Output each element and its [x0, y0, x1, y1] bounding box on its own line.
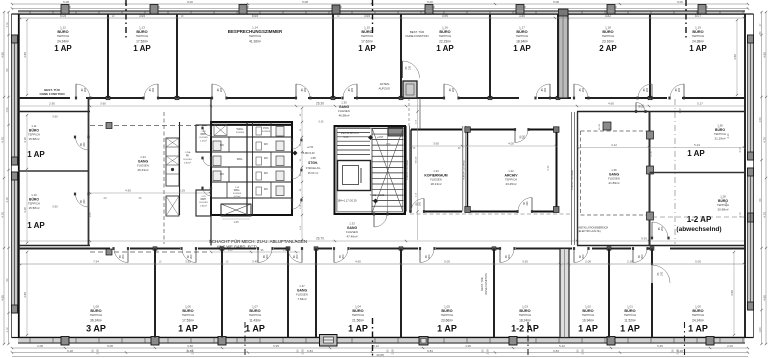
svg-text:200: 200 — [342, 254, 345, 259]
GANG dimension line with values — [89, 189, 211, 201]
upper corridor dimension line — [20, 102, 744, 218]
svg-text:2.28: 2.28 — [301, 349, 305, 355]
svg-text:4.80: 4.80 — [730, 290, 734, 296]
svg-text:21.56m²: 21.56m² — [352, 319, 364, 323]
svg-text:4.70: 4.70 — [0, 137, 4, 143]
svg-text:3.60: 3.60 — [100, 102, 106, 106]
svg-text:(ELEKTRO+KÄLTE): (ELEKTRO+KÄLTE) — [578, 230, 601, 233]
svg-text:WC: WC — [220, 173, 224, 176]
svg-text:5.95: 5.95 — [273, 344, 279, 348]
svg-text:200: 200 — [296, 254, 299, 259]
room label 1.33 GANG below stairs — [346, 222, 358, 239]
svg-text:1.11: 1.11 — [31, 124, 37, 128]
room label 1.38 BÜRO 1 AP right upper — [687, 124, 730, 159]
svg-text:4.80: 4.80 — [23, 292, 27, 298]
door to upper office — [573, 84, 590, 99]
svg-text:9.00: 9.00 — [187, 0, 193, 4]
door to lower office — [632, 247, 649, 262]
svg-text:OHNE FUNKTION: OHNE FUNKTION — [405, 34, 428, 38]
svg-text:1.50: 1.50 — [386, 144, 391, 146]
svg-text:4.80: 4.80 — [762, 52, 766, 58]
svg-text:1 AP: 1 AP — [687, 149, 705, 158]
svg-text:WC: WC — [264, 157, 268, 160]
door to lower office — [286, 247, 303, 262]
svg-text:18.13m²: 18.13m² — [430, 182, 441, 186]
door to upper office — [534, 84, 551, 99]
svg-text:24.24m²: 24.24m² — [692, 319, 704, 323]
svg-text:46.98m²: 46.98m² — [338, 114, 349, 118]
svg-text:5.08: 5.08 — [63, 0, 69, 4]
svg-text:TEPPICH: TEPPICH — [441, 313, 454, 317]
svg-text:17.52m²: 17.52m² — [136, 40, 148, 44]
svg-text:1.13: 1.13 — [139, 26, 145, 30]
svg-text:5.08: 5.08 — [553, 0, 559, 4]
svg-text:6.83: 6.83 — [307, 349, 313, 353]
svg-text:200: 200 — [452, 87, 455, 92]
svg-text:200: 200 — [508, 254, 511, 259]
interior vertical dimension bottom-right room — [730, 251, 735, 336]
svg-text:1.72: 1.72 — [5, 327, 9, 333]
room label 1.00 BÜRO 1 AP — [688, 305, 708, 334]
door to upper office — [295, 84, 312, 99]
wall lower corridor north of lower offices — [18, 247, 745, 251]
axis line G dash-dot upper right — [685, 0, 687, 38]
svg-text:PK: PK — [186, 155, 190, 158]
svg-text:1 AP: 1 AP — [688, 324, 708, 334]
interior vertical dimension middle-left offices — [23, 114, 28, 244]
interior vertical dimension KOPIERRAUM — [409, 98, 420, 240]
svg-text:FLIESEN: FLIESEN — [262, 131, 271, 133]
room label 1.12 BÜRO 1 AP — [54, 26, 72, 54]
svg-text:OHNE FUNKTION: OHNE FUNKTION — [484, 273, 488, 295]
door to lower office — [112, 247, 129, 262]
wall bottom facade — [18, 338, 745, 344]
room label 1.88 STGH STEIGELAG — [306, 156, 321, 175]
door to upper office — [341, 84, 358, 99]
svg-text:WC: WC — [264, 143, 268, 146]
svg-text:5.08: 5.08 — [302, 0, 308, 4]
door into room 1.28 lower right — [651, 222, 670, 239]
svg-text:200: 200 — [190, 254, 193, 259]
room KOPIERRAUM walls — [411, 130, 462, 212]
svg-text:16.94m²: 16.94m² — [582, 319, 594, 323]
svg-text:OHNE FUNKTION: OHNE FUNKTION — [40, 92, 65, 96]
svg-text:1 AP: 1 AP — [620, 324, 640, 334]
svg-text:1.24: 1.24 — [140, 155, 146, 159]
svg-text:4.80: 4.80 — [23, 52, 27, 58]
room label 1.13 BÜRO 1 AP — [133, 26, 151, 54]
svg-text:1.02: 1.02 — [585, 305, 591, 309]
dimension note 0.30 — [319, 121, 324, 124]
svg-text:1.60: 1.60 — [678, 108, 682, 114]
label 1-2 AP abwechselnd — [676, 215, 721, 233]
svg-text:TEPPICH: TEPPICH — [624, 313, 637, 317]
svg-text:200: 200 — [220, 87, 223, 92]
axis line dash-dot right rooms — [652, 99, 744, 244]
VORSATZSCHALE strip west of KOPIERRAUM — [406, 126, 410, 212]
svg-text:1.33: 1.33 — [349, 222, 355, 226]
wall east of right GANG — [649, 112, 651, 246]
svg-text:18.24m²: 18.24m² — [519, 319, 531, 323]
svg-text:TEPPICH: TEPPICH — [505, 178, 517, 182]
svg-text:1.72: 1.72 — [5, 22, 9, 28]
svg-text:9.00: 9.00 — [677, 0, 683, 4]
svg-text:5.05: 5.05 — [444, 260, 450, 264]
svg-text:1.12: 1.12 — [60, 26, 66, 30]
svg-text:AKTEN-: AKTEN- — [380, 82, 390, 86]
VORSATZSCHALE strip between KOPIERRAUM and ARCHIV — [462, 126, 466, 212]
svg-text:11.52m²: 11.52m² — [624, 319, 635, 323]
wall south of right GANG and offices — [577, 245, 745, 247]
door to upper office — [668, 84, 685, 99]
svg-text:WDL.: WDL. — [237, 157, 244, 161]
svg-text:200: 200 — [582, 254, 585, 259]
svg-text:8.65: 8.65 — [252, 14, 258, 18]
label SCHACHT FÜR MECH — [209, 239, 307, 249]
svg-text:4.05: 4.05 — [508, 142, 514, 146]
svg-text:2.84m²: 2.84m² — [200, 205, 207, 208]
WC room labels — [220, 126, 271, 198]
svg-text:200: 200 — [641, 254, 644, 259]
svg-text:2.28: 2.28 — [486, 349, 490, 355]
elevator shaft — [338, 161, 371, 191]
svg-text:24.38m²: 24.38m² — [692, 40, 704, 44]
room label 1.25A PK — [183, 151, 192, 165]
svg-text:WC: WC — [264, 172, 268, 175]
svg-text:4.82: 4.82 — [605, 14, 611, 18]
svg-text:4.80: 4.80 — [733, 54, 737, 60]
svg-text:4.70: 4.70 — [738, 147, 742, 153]
axis line D dash-dot lower — [527, 322, 529, 358]
door to upper office — [142, 84, 159, 99]
svg-text:200: 200 — [523, 134, 526, 139]
svg-text:1 AP: 1 AP — [133, 44, 151, 53]
svg-text:6.60m²: 6.60m² — [184, 162, 191, 165]
svg-text:3.60: 3.60 — [52, 115, 58, 119]
svg-text:17.62m²: 17.62m² — [361, 40, 373, 44]
svg-text:18H=1.17 /20.29: 18H=1.17 /20.29 — [337, 199, 357, 203]
room label 1.22 ARCHIV — [505, 169, 519, 186]
svg-text:3.65: 3.65 — [139, 14, 145, 18]
svg-text:3.65: 3.65 — [364, 14, 370, 18]
svg-text:4.95: 4.95 — [465, 344, 471, 348]
svg-text:1 AP: 1 AP — [578, 324, 598, 334]
dimension row below WC core — [210, 249, 300, 253]
installation dashed line above middle-room south walls — [410, 213, 570, 215]
svg-text:4.90: 4.90 — [125, 189, 131, 193]
svg-text:TEPPICH: TEPPICH — [361, 34, 374, 38]
shaft box with X below WC core — [221, 204, 251, 224]
svg-text:TEPPICH: TEPPICH — [602, 34, 615, 38]
room label 1.19 BÜRO 1 AP — [689, 26, 707, 54]
stairwell enclosure walls — [335, 126, 406, 214]
svg-text:+2.50: +2.50 — [307, 146, 314, 149]
svg-text:15H 16.68 /4.57: 15H 16.68 /4.57 — [341, 131, 360, 135]
svg-text:1.05: 1.05 — [444, 305, 450, 309]
svg-text:3.49: 3.49 — [252, 260, 258, 264]
wall right facade window band upper — [745, 14, 754, 338]
svg-text:5.05: 5.05 — [695, 260, 701, 264]
svg-text:6.83: 6.83 — [553, 349, 559, 353]
svg-text:WC: WC — [264, 188, 268, 191]
svg-text:5.12: 5.12 — [373, 344, 379, 348]
room label 1.11 BÜRO 1 AP middle-left upper — [27, 115, 58, 160]
lower corridor dimension line — [20, 237, 744, 243]
svg-text:FLIESEN: FLIESEN — [199, 137, 208, 139]
dimension chain right outer — [758, 11, 767, 345]
svg-text:1.28: 1.28 — [720, 195, 726, 199]
svg-text:40/100: 40/100 — [599, 123, 601, 130]
svg-text:2.76: 2.76 — [649, 151, 653, 157]
svg-text:1.30: 1.30 — [341, 101, 347, 105]
svg-text:41.92m²: 41.92m² — [249, 40, 261, 44]
svg-text:WRH.: WRH. — [237, 127, 244, 131]
svg-text:200: 200 — [83, 142, 86, 147]
svg-text:1.60: 1.60 — [228, 249, 233, 252]
small room 1.30 WRH upper-left of core — [196, 125, 211, 152]
svg-text:1 AP: 1 AP — [178, 324, 198, 334]
door ARCHIV lower — [516, 198, 533, 213]
svg-text:STEIGELAG: STEIGELAG — [306, 166, 321, 170]
svg-text:TEPPICH: TEPPICH — [352, 313, 365, 317]
svg-text:21.89m²: 21.89m² — [608, 181, 619, 185]
svg-text:2.08: 2.08 — [585, 260, 591, 264]
svg-text:TEPPICH: TEPPICH — [582, 313, 595, 317]
svg-text:FLIESEN: FLIESEN — [236, 132, 245, 134]
stair main flight treads — [372, 128, 404, 213]
svg-text:4.70: 4.70 — [738, 212, 742, 218]
svg-text:200: 200 — [304, 87, 307, 92]
svg-text:21.29m²: 21.29m² — [714, 137, 725, 141]
svg-text:26.70: 26.70 — [316, 237, 324, 241]
wall north of middle-left offices — [18, 111, 90, 113]
svg-text:TEPPICH: TEPPICH — [28, 202, 40, 206]
door middle-left office lower — [74, 193, 90, 207]
room label 1.36 GANG right — [608, 168, 620, 185]
svg-text:200: 200 — [642, 104, 645, 109]
WC core door arcs — [201, 127, 302, 209]
svg-text:3.80: 3.80 — [519, 14, 525, 18]
svg-text:1 AP: 1 AP — [27, 150, 45, 159]
svg-text:74.61=+2.21: 74.61=+2.21 — [370, 193, 385, 197]
svg-text:FLIESEN: FLIESEN — [199, 202, 208, 204]
door to lower office — [573, 247, 590, 262]
svg-text:1.88: 1.88 — [310, 156, 316, 160]
room label 1.24 GANG middle-left — [137, 155, 149, 172]
svg-text:200: 200 — [419, 201, 422, 206]
room label 1.03 BÜRO 1-2 AP — [511, 305, 539, 334]
svg-text:4.70: 4.70 — [762, 137, 766, 143]
svg-text:1.18: 1.18 — [605, 26, 611, 30]
svg-text:4.18: 4.18 — [23, 207, 27, 213]
svg-text:3.55: 3.55 — [522, 260, 528, 264]
columns on top facade — [61, 5, 706, 15]
dimension line middle rooms — [410, 142, 557, 151]
svg-text:TEPPICH: TEPPICH — [714, 132, 726, 136]
svg-text:1-2 AP: 1-2 AP — [511, 324, 539, 334]
svg-text:TEPPICH: TEPPICH — [516, 34, 529, 38]
partition walls between upper offices — [108, 14, 650, 98]
svg-text:4.01m²: 4.01m² — [234, 195, 241, 198]
dimension chain top outer — [11, 0, 749, 10]
door to lower office — [180, 247, 197, 262]
svg-text:1.16: 1.16 — [442, 26, 448, 30]
room label 1.05 BÜRO 1 AP — [437, 305, 457, 334]
svg-text:200: 200 — [84, 87, 87, 92]
dimension line inside upper offices — [19, 14, 745, 19]
svg-text:200: 200 — [428, 254, 431, 259]
svg-text:1 AP: 1 AP — [54, 44, 72, 53]
wall top corridor south of upper offices — [18, 96, 745, 100]
svg-text:1.60: 1.60 — [758, 327, 762, 333]
svg-text:200: 200 — [582, 87, 585, 92]
svg-text:POS: POS — [263, 126, 269, 130]
svg-text:75.80=3.40: 75.80=3.40 — [301, 151, 315, 155]
svg-text:FLIESEN: FLIESEN — [296, 293, 308, 297]
svg-text:1.01: 1.01 — [627, 305, 633, 309]
room label 1.10 BÜRO 1 AP middle-left lower — [27, 193, 58, 230]
dimension chain left outer — [0, 11, 9, 345]
svg-text:5.05: 5.05 — [60, 14, 66, 18]
door ARCHIV upper — [514, 128, 530, 142]
room label 1.18 BÜRO 2 AP — [599, 26, 617, 54]
door to lower office — [419, 247, 436, 262]
svg-text:4.18: 4.18 — [23, 137, 27, 143]
axis line C dash-dot lower — [372, 318, 374, 358]
svg-text:6.83: 6.83 — [427, 349, 433, 353]
dimension line inside lower offices — [19, 260, 745, 266]
wall east of middle-left offices — [88, 98, 90, 246]
svg-text:2.28: 2.28 — [676, 349, 680, 355]
column with niche on bottom facade — [419, 337, 428, 346]
door to upper office — [211, 84, 228, 99]
svg-text:WD.AN: WD.AN — [415, 156, 418, 163]
shaft boxes on east GANG wall — [599, 122, 654, 220]
dashed installation boundary right GANG — [581, 131, 647, 215]
partition walls between lower offices — [155, 249, 652, 338]
room label 1.30 GANG above stairs — [338, 101, 350, 118]
svg-text:4.60: 4.60 — [608, 102, 614, 106]
svg-text:1.50: 1.50 — [758, 117, 762, 123]
installation dashed line left GANG upper — [90, 123, 210, 129]
axis line B dash-dot upper — [372, 0, 374, 34]
door to upper office — [75, 84, 92, 99]
svg-text:200: 200 — [351, 87, 354, 92]
room label 1.28 BÜRO right lower — [717, 195, 729, 212]
wall west of right GANG — [577, 112, 579, 246]
svg-text:1.15: 1.15 — [364, 26, 370, 30]
door from corridor into right GANG — [635, 103, 647, 113]
svg-text:TEPPICH: TEPPICH — [57, 34, 70, 38]
AKTENAUFZUG shaft — [379, 30, 429, 98]
level marker 75.80=3.40 — [293, 146, 316, 156]
wall left facade window band upper — [12, 14, 19, 338]
label INSTALLATIONSBEREICH — [578, 227, 608, 234]
svg-text:4.10: 4.10 — [726, 133, 730, 139]
svg-text:23.25m²: 23.25m² — [505, 182, 516, 186]
room label 1.15 BÜRO 1 AP — [358, 26, 376, 54]
svg-text:3.60: 3.60 — [433, 142, 439, 146]
door to lower office 1.00 large — [652, 265, 670, 283]
svg-text:AUFZUG: AUFZUG — [379, 87, 391, 91]
door KOPIERRAUM — [409, 199, 425, 213]
svg-text:5.08: 5.08 — [107, 344, 113, 348]
svg-text:WRH.: WRH. — [200, 198, 207, 201]
svg-text:3.29: 3.29 — [179, 189, 185, 193]
entrance element on bottom facade — [320, 335, 338, 347]
svg-text:5.23: 5.23 — [694, 143, 700, 147]
svg-text:1.06: 1.06 — [185, 305, 191, 309]
svg-text:0.30: 0.30 — [319, 121, 324, 124]
svg-text:4.70: 4.70 — [0, 212, 4, 218]
shaft between lower offices 1.03 and 1.02 — [560, 249, 569, 338]
door to lower office — [257, 247, 274, 262]
svg-text:4.60: 4.60 — [355, 260, 361, 264]
svg-text:200: 200 — [661, 226, 664, 231]
svg-text:FLIESEN: FLIESEN — [430, 178, 442, 182]
svg-text:4.18: 4.18 — [5, 197, 9, 203]
wall between middle-left offices — [18, 170, 89, 172]
svg-text:4.70: 4.70 — [762, 212, 766, 218]
room label 1.17 BÜRO 1 AP — [513, 26, 531, 54]
svg-text:TEPPICH: TEPPICH — [692, 313, 705, 317]
svg-text:TEPPICH: TEPPICH — [28, 133, 40, 137]
svg-text:STGH.: STGH. — [308, 161, 318, 165]
wall east of cabinet strip — [179, 122, 181, 215]
WC core outer walls — [211, 98, 292, 246]
room label 1.16 BÜRO 1 AP — [436, 26, 454, 54]
VORSATZSCHALE strip east of ARCHIV — [571, 112, 575, 245]
svg-text:TEPPICH: TEPPICH — [519, 313, 532, 317]
svg-text:1.43m²: 1.43m² — [200, 140, 207, 143]
svg-text:1.10: 1.10 — [31, 193, 37, 197]
svg-text:2.28: 2.28 — [96, 349, 100, 355]
wall between right offices 1.38 and 1.28 — [650, 172, 746, 174]
svg-text:7.63m²: 7.63m² — [297, 297, 306, 301]
stair upper flight treads — [337, 128, 370, 154]
dimension line right middle — [577, 108, 745, 218]
door middle-left office upper — [74, 136, 90, 150]
svg-text:7.54: 7.54 — [93, 260, 99, 264]
svg-text:200: 200 — [678, 87, 681, 92]
svg-text:3 AP: 3 AP — [86, 324, 106, 334]
svg-text:5.27: 5.27 — [697, 102, 703, 106]
svg-text:4.80: 4.80 — [0, 52, 4, 58]
svg-text:11.43m²: 11.43m² — [249, 319, 260, 323]
svg-text:(abwechselnd): (abwechselnd) — [676, 226, 721, 233]
room label 1.04 BÜRO 1 AP — [348, 305, 368, 334]
svg-text:200: 200 — [266, 254, 269, 259]
svg-text:1 AP: 1 AP — [245, 324, 265, 334]
svg-text:TEPPICH: TEPPICH — [692, 34, 705, 38]
wall right facade window band lower — [745, 14, 754, 338]
svg-text:1-2 AP: 1-2 AP — [687, 215, 712, 224]
cabinet strip west of core — [166, 138, 179, 216]
svg-text:4.12: 4.12 — [611, 143, 617, 147]
svg-text:FLIESEN: FLIESEN — [233, 193, 242, 195]
svg-text:FLIESEN: FLIESEN — [608, 177, 620, 181]
svg-text:1.38: 1.38 — [717, 124, 723, 128]
svg-text:VORSATZSCHALE: VORSATZSCHALE — [571, 170, 574, 190]
svg-text:1.04: 1.04 — [355, 305, 361, 309]
svg-text:15.58m²: 15.58m² — [28, 206, 39, 210]
svg-text:1.23: 1.23 — [433, 169, 439, 173]
svg-text:4.90: 4.90 — [442, 14, 448, 18]
room label 1.14 BESPRECHUNGSZIMMER — [228, 26, 283, 44]
svg-text:200: 200 — [409, 65, 412, 70]
svg-text:1 AP: 1 AP — [437, 324, 457, 334]
svg-text:1.22: 1.22 — [508, 169, 514, 173]
